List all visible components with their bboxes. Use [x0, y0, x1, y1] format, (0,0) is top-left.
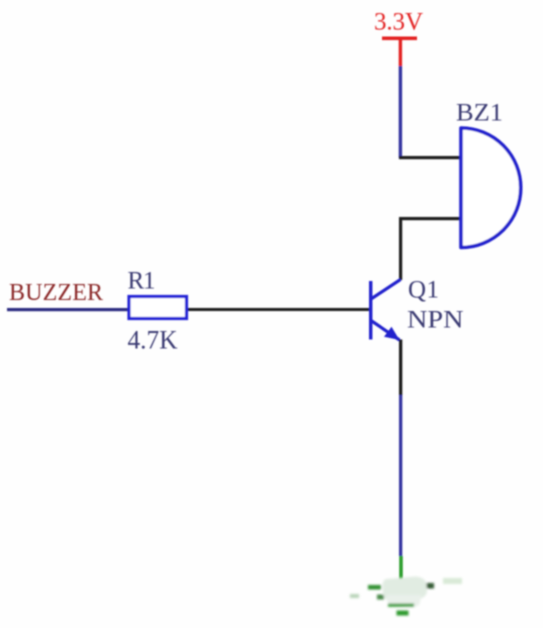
- svg-text:Q1: Q1: [408, 276, 439, 303]
- svg-text:NPN: NPN: [407, 307, 464, 334]
- svg-text:BZ1: BZ1: [456, 100, 503, 127]
- svg-text:R1: R1: [128, 267, 156, 294]
- svg-text:BUZZER: BUZZER: [9, 280, 103, 306]
- svg-text:4.7K: 4.7K: [128, 326, 178, 355]
- svg-text:3.3V: 3.3V: [374, 9, 423, 36]
